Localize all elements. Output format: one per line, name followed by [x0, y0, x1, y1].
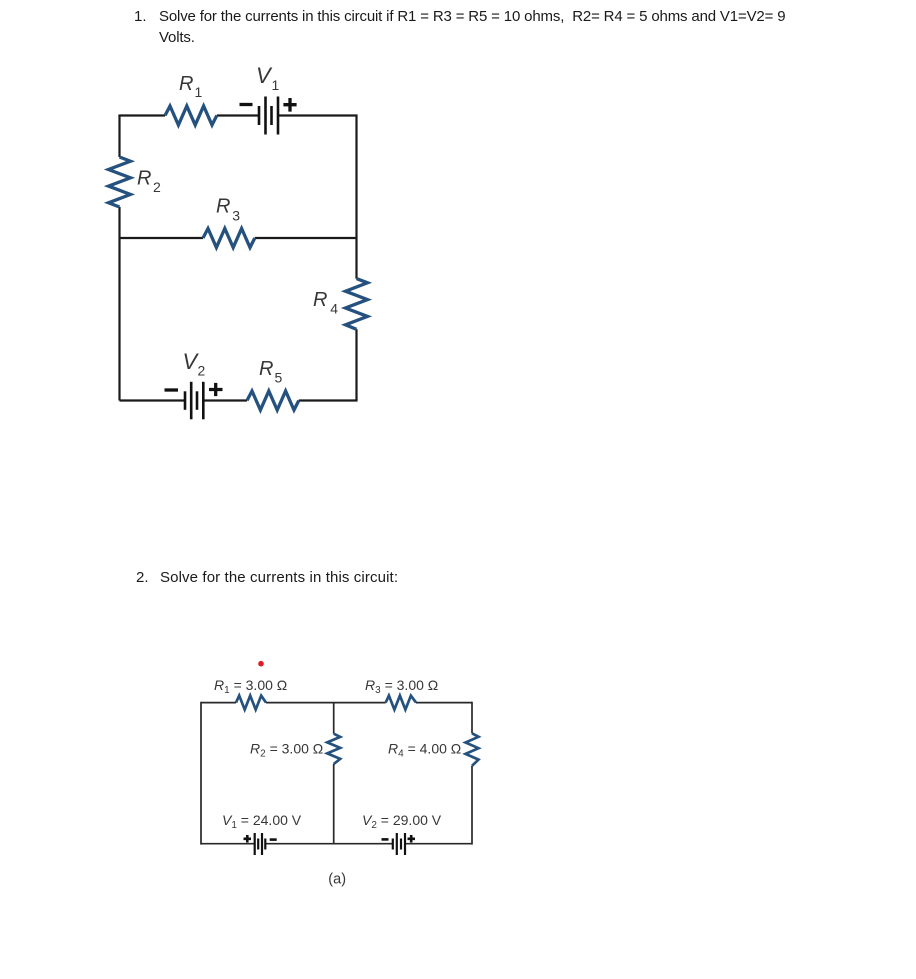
svg-text:V2 = 29.00 V: V2 = 29.00 V [362, 812, 442, 831]
svg-text:1: 1 [272, 77, 280, 93]
svg-text:R: R [179, 73, 193, 95]
battery V1 c2 plus sign [244, 835, 252, 843]
svg-text:R3 = 3.00 Ω: R3 = 3.00 Ω [365, 677, 438, 696]
wire c2 bottom-mid: V1 battery to V2 battery [265, 843, 393, 845]
resistor R2 c2 (middle branch, vertical) [327, 734, 340, 764]
svg-text:R: R [216, 196, 230, 218]
wire middle-right: R3 to right wire (middle-right node) [255, 237, 357, 239]
svg-text:R2 = 3.00 Ω: R2 = 3.00 Ω [250, 741, 323, 760]
battery V2 long plate [190, 382, 193, 420]
battery V2 c2 short plate (negative) [392, 839, 394, 850]
battery V1 c2 short plate (negative) [264, 839, 266, 850]
svg-text:2: 2 [198, 363, 206, 379]
resistor R3 c2 (top-right, horizontal) [386, 696, 416, 710]
battery V2 short plate [196, 391, 199, 410]
wire c2 middle-lower: R2 down to bottom wire [333, 764, 335, 844]
resistor R1 (top, horizontal) [165, 106, 217, 125]
battery V1 c2 short plate [257, 839, 259, 850]
resistor R4 (right side, vertical) [346, 279, 368, 330]
battery V2 (bottom) [185, 382, 203, 420]
wire c2 right-upper: top-right corner down to R4 [471, 702, 473, 734]
svg-text:V1 = 24.00 V: V1 = 24.00 V [222, 812, 302, 831]
problem 1 number [134, 6, 147, 27]
battery V2 c2 long plate (positive) [404, 833, 406, 855]
wire left-lower: R2 through middle-left node to bottom-left corner [118, 207, 120, 401]
battery V1 short plate (negative) [258, 106, 261, 125]
problem 1 text [159, 6, 785, 48]
battery V2 c2 short plate [400, 839, 402, 850]
resistor R3 (middle, horizontal) [203, 229, 255, 248]
problem 2 text [160, 567, 398, 588]
wire c2 top-mid: R1 past middle node to R3 [266, 702, 386, 704]
wire bottom-left: bottom-left corner to V2 battery [120, 399, 186, 401]
wire bottom-mid: V2 battery to R5 [203, 399, 247, 401]
svg-text:5: 5 [275, 370, 283, 386]
svg-text:R4 = 4.00 Ω: R4 = 4.00 Ω [388, 741, 461, 760]
svg-text:R: R [259, 358, 273, 380]
wire bottom-right: R5 to bottom-right corner [299, 399, 358, 401]
battery V2 c2 minus sign [382, 838, 389, 841]
wire top-mid: R1 to V1 battery [217, 114, 259, 116]
battery V1 c2 long plate (positive) [254, 833, 256, 855]
wire c2 bottom-left: bottom-left corner to V1 battery [201, 843, 255, 845]
battery V1 long plate [264, 97, 267, 135]
wire c2 top-right: R3 to top-right corner [416, 702, 472, 704]
svg-text:R: R [313, 289, 327, 311]
wire left-upper: top-left corner down to R2 [118, 115, 120, 158]
wire c2 bottom-right: V2 battery to bottom-right corner [405, 843, 472, 845]
resistor R5 (bottom, horizontal) [247, 391, 299, 410]
wire c2 right-lower: R4 to bottom-right corner [471, 766, 473, 845]
battery V1 short plate [270, 106, 273, 125]
battery V1 long plate (positive) [277, 97, 280, 135]
battery V1 c2 minus sign [270, 838, 277, 841]
battery V2 c2 [393, 833, 405, 855]
resistor R2 (left side, vertical) [109, 157, 131, 207]
svg-text:(a): (a) [328, 872, 346, 888]
svg-text:4: 4 [330, 301, 338, 317]
battery V2 c2 plus sign [408, 835, 416, 843]
svg-text:1: 1 [195, 84, 203, 100]
wire right-lower: R4 to bottom-right corner [355, 329, 357, 400]
svg-text:2: 2 [153, 179, 161, 195]
svg-text:V: V [256, 63, 273, 88]
battery V1 c2 long plate [261, 833, 263, 855]
battery V2 c2 long plate [396, 833, 398, 855]
red dot marker [258, 661, 264, 667]
battery V2 long plate (positive) [202, 382, 205, 420]
wire top-right: V1 battery to top-right corner, down right side to R4 [278, 116, 357, 279]
problem 2 number [136, 567, 149, 588]
battery V1 (top) [259, 97, 278, 135]
battery V1 minus sign [240, 103, 253, 106]
battery V2 short plate (negative) [184, 391, 187, 410]
battery V2 plus sign [209, 383, 223, 396]
wire c2 top-left: top-left corner to R1 [201, 702, 236, 704]
svg-text:R: R [137, 168, 151, 190]
wire c2 middle-upper: top wire down to R2 [333, 703, 335, 734]
battery V2 minus sign [165, 388, 179, 391]
battery V1 plus sign [283, 98, 296, 112]
svg-text:3: 3 [232, 207, 240, 223]
resistor R1 c2 (top-left, horizontal) [236, 696, 266, 710]
battery V1 c2 [255, 833, 266, 855]
wire middle-left: middle-left node to R3 [120, 237, 204, 239]
resistor R4 c2 (right branch, vertical) [466, 733, 479, 766]
wire top-left: top-left corner to R1 [120, 115, 166, 116]
wire c2 left side [200, 702, 202, 845]
